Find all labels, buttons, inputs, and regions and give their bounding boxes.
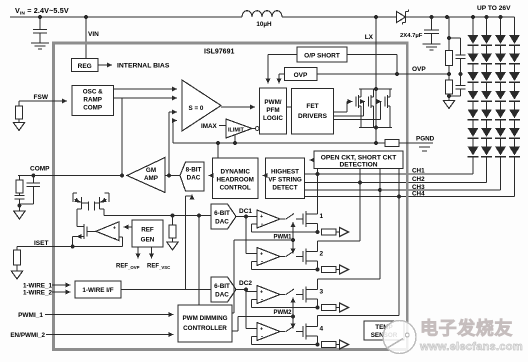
svg-text:DETECT: DETECT [272, 185, 297, 192]
svg-text:-: - [261, 298, 263, 304]
svg-text:FSW: FSW [34, 94, 49, 101]
svg-text:INTERNAL BIAS: INTERNAL BIAS [117, 62, 170, 69]
svg-text:OVP: OVP [294, 72, 308, 79]
svg-text:+: + [260, 252, 263, 258]
svg-text:REF: REF [141, 227, 154, 234]
svg-text:DRIVERS: DRIVERS [298, 113, 328, 120]
svg-text:AMP: AMP [144, 175, 158, 182]
svg-text:HEADROOM: HEADROOM [216, 177, 253, 184]
svg-text:PGND: PGND [416, 136, 435, 143]
svg-text:1-WIRE_2: 1-WIRE_2 [23, 290, 53, 297]
svg-text:GEN: GEN [141, 237, 155, 244]
svg-text:+: + [260, 214, 263, 220]
svg-text:REF_OVP: REF_OVP [116, 264, 140, 270]
svg-text:PWM/: PWM/ [264, 99, 281, 106]
svg-text:OVP: OVP [412, 66, 426, 73]
svg-text:DC1: DC1 [239, 208, 252, 215]
svg-text:CH2: CH2 [412, 176, 425, 183]
svg-text:PFM: PFM [266, 107, 279, 114]
svg-text:www.elecfans.com: www.elecfans.com [419, 341, 523, 353]
svg-text:UP TO 26V: UP TO 26V [477, 5, 511, 12]
svg-text:+: + [260, 290, 263, 296]
svg-text:VF STRING: VF STRING [268, 177, 302, 184]
svg-text:DETECTION: DETECTION [339, 162, 377, 169]
svg-text:1: 1 [320, 213, 324, 220]
svg-text:6-BIT: 6-BIT [214, 283, 230, 290]
svg-text:-: - [261, 335, 263, 341]
svg-text:COMP: COMP [30, 166, 50, 173]
svg-text:LX: LX [365, 34, 374, 41]
svg-text:3: 3 [320, 289, 324, 296]
svg-text:HIGHEST: HIGHEST [271, 169, 299, 176]
svg-text:VIN: VIN [88, 31, 99, 38]
svg-text:RAMP: RAMP [83, 97, 102, 104]
svg-text:ISL97691: ISL97691 [204, 49, 234, 56]
svg-text:CONTROL: CONTROL [220, 185, 251, 192]
svg-text:-: - [261, 260, 263, 266]
svg-text:PWM DIMMING: PWM DIMMING [182, 315, 227, 322]
svg-text:电子发烧友: 电子发烧友 [420, 318, 513, 339]
svg-text:8-BIT: 8-BIT [186, 167, 202, 174]
svg-text:ILIMIT: ILIMIT [228, 128, 245, 134]
svg-text:LOGIC: LOGIC [263, 115, 283, 122]
svg-text:IMAX: IMAX [201, 123, 218, 130]
svg-text:S = 0: S = 0 [189, 105, 204, 112]
svg-text:PWM2: PWM2 [274, 310, 293, 316]
svg-text:+: + [113, 226, 116, 232]
svg-text:PWMI_1: PWMI_1 [18, 312, 43, 319]
svg-text:-: - [114, 236, 116, 242]
svg-text:10µH: 10µH [256, 21, 272, 28]
svg-text:+: + [260, 327, 263, 333]
svg-text:4: 4 [320, 326, 324, 333]
svg-text:REG: REG [78, 63, 92, 70]
svg-text:COMP: COMP [83, 105, 102, 112]
svg-text:-: - [261, 222, 263, 228]
svg-text:O/P SHORT: O/P SHORT [304, 53, 340, 60]
svg-text:DYNAMIC: DYNAMIC [221, 169, 251, 176]
svg-text:DC2: DC2 [239, 280, 252, 287]
svg-text:OPEN CKT, SHORT CKT: OPEN CKT, SHORT CKT [321, 154, 396, 161]
svg-text:DAC: DAC [215, 292, 229, 299]
svg-text:2X4.7µF: 2X4.7µF [400, 33, 423, 39]
svg-text:DAC: DAC [187, 175, 201, 182]
svg-text:CH1: CH1 [412, 168, 425, 175]
svg-text:REF_VSC: REF_VSC [147, 264, 170, 270]
svg-text:FET: FET [306, 103, 318, 110]
svg-text:GM: GM [146, 167, 156, 174]
svg-text:OSC &: OSC & [83, 89, 103, 96]
svg-text:EN/PWMI_2: EN/PWMI_2 [10, 332, 45, 339]
svg-text:CH4: CH4 [412, 191, 425, 198]
svg-text:6-BIT: 6-BIT [214, 210, 230, 217]
svg-text:ISET: ISET [34, 240, 48, 247]
svg-text:2: 2 [320, 251, 324, 258]
svg-text:1-WIRE I/F: 1-WIRE I/F [82, 287, 113, 294]
svg-text:CONTROLLER: CONTROLLER [183, 325, 227, 332]
svg-text:DAC: DAC [215, 219, 229, 226]
svg-text:1-WIRE_1: 1-WIRE_1 [23, 282, 53, 289]
